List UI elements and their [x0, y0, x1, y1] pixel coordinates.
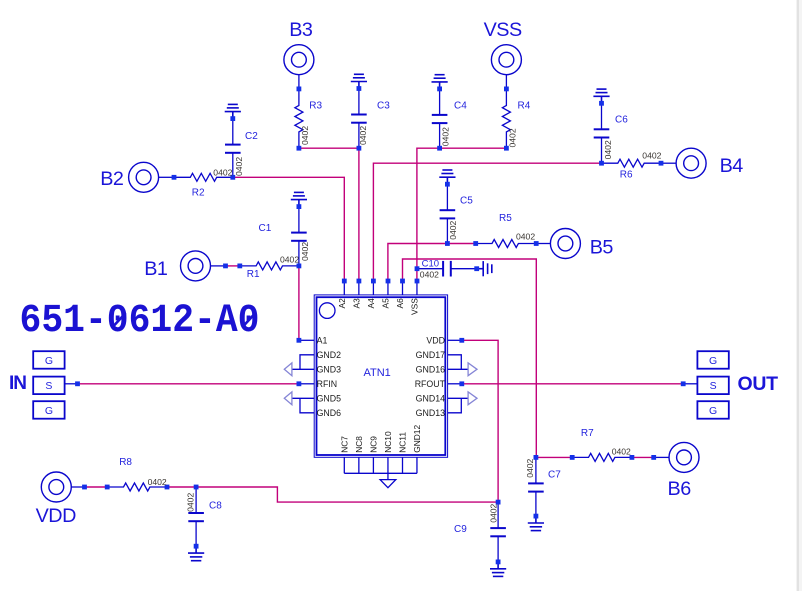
svg-text:VDD: VDD	[36, 505, 76, 527]
svg-text:G: G	[709, 405, 717, 417]
GND14 GND13 arrow	[468, 392, 477, 405]
svg-text:C3: C3	[377, 101, 390, 112]
junction C2 pin 1	[230, 116, 235, 121]
capacitor C2	[225, 119, 241, 178]
junction RFOUT pin	[459, 381, 464, 386]
capacitor C10	[417, 261, 477, 277]
junction C1 pin 1	[297, 204, 302, 209]
svg-text:R6: R6	[620, 169, 633, 180]
resistor R6	[602, 159, 662, 167]
svg-text:VSS: VSS	[410, 298, 420, 315]
svg-text:NC7: NC7	[339, 436, 349, 453]
ground (earth, up) at C6	[593, 89, 609, 103]
junction C3 pin 1	[357, 86, 362, 91]
svg-text:0402: 0402	[488, 503, 498, 522]
svg-text:R5: R5	[499, 213, 512, 224]
junction R8 pin 1	[105, 485, 110, 490]
svg-text:C10: C10	[422, 258, 439, 269]
ground (earth, up) at C3	[351, 74, 367, 88]
svg-text:OUT: OUT	[738, 373, 779, 395]
IN S stub	[65, 383, 78, 385]
svg-text:R3: R3	[309, 101, 322, 112]
pins GND2 GND3 bracket	[300, 355, 314, 370]
B6 stub	[654, 456, 670, 458]
OUT S pad	[697, 377, 728, 395]
svg-text:IN: IN	[9, 373, 26, 394]
junction C7 pin 1	[534, 455, 539, 460]
connector B5	[550, 229, 580, 259]
resistor R4	[502, 89, 510, 148]
junction B6 pin	[651, 455, 656, 460]
B1 stub	[210, 265, 225, 267]
svg-text:0402: 0402	[300, 242, 310, 261]
svg-text:GND17: GND17	[416, 350, 445, 360]
wire RFOUT to OUT	[462, 383, 683, 385]
junction C4 pin 2	[437, 146, 442, 151]
junction VSS pin	[415, 279, 420, 284]
svg-text:A6: A6	[395, 298, 405, 309]
junction R1 pin 1	[237, 264, 242, 269]
GND5 GND6 arrow	[284, 392, 292, 405]
capacitor C8	[188, 487, 204, 546]
svg-text:0402: 0402	[642, 151, 661, 161]
svg-text:0402: 0402	[234, 157, 244, 176]
svg-text:R4: R4	[518, 101, 531, 112]
VSS connector stub	[505, 74, 507, 89]
pin RFOUT stub	[448, 383, 462, 385]
junction R7 pin 2	[630, 455, 635, 460]
wire C7 to R7	[536, 456, 572, 458]
connector VDD connector	[41, 472, 71, 502]
svg-text:R2: R2	[192, 188, 205, 199]
svg-text:A4: A4	[366, 298, 376, 309]
ATN1 bottom ground stub	[387, 473, 389, 479]
svg-text:0402: 0402	[603, 140, 613, 159]
svg-text:0402: 0402	[441, 127, 451, 146]
wire C1 node to A1	[298, 266, 300, 340]
capacitor C5	[440, 184, 456, 243]
ground (earth, down) at C7	[528, 516, 544, 531]
svg-text:0402: 0402	[185, 493, 195, 512]
junction C4 pin 1	[437, 87, 442, 92]
svg-text:0402: 0402	[280, 255, 299, 265]
junction R4 pin 2	[504, 146, 509, 151]
svg-text:B6: B6	[668, 478, 692, 500]
junction OUT S pin	[681, 381, 686, 386]
pin A1 stub	[299, 339, 314, 341]
svg-text:NC9: NC9	[368, 436, 378, 453]
B4 stub	[661, 162, 677, 164]
junction B3 R3 node	[297, 87, 302, 92]
ground (earth, up) at C1	[291, 192, 307, 206]
resistor R8	[107, 483, 167, 491]
svg-text:B5: B5	[590, 237, 614, 259]
ground (earth, up) at C5	[439, 170, 455, 184]
ground (earth, up) at C4	[432, 75, 448, 89]
junction C9 pin 2	[496, 560, 501, 565]
svg-text:GND16: GND16	[416, 365, 445, 375]
OUT S stub	[683, 383, 697, 385]
svg-text:A5: A5	[381, 298, 391, 309]
wire VDD pin to C9 node	[462, 340, 498, 502]
svg-text:0402: 0402	[525, 458, 535, 477]
junction C8 pin 1	[194, 485, 199, 490]
svg-text:R1: R1	[247, 269, 260, 280]
svg-text:B4: B4	[720, 155, 744, 177]
svg-text:B3: B3	[289, 19, 313, 41]
OUT G pad bottom	[697, 401, 728, 419]
junction VDD conn pin	[82, 485, 87, 490]
junction A6 pin	[400, 279, 405, 284]
resistor R5	[476, 240, 537, 248]
wire VSS pin to C4 R4 net	[417, 148, 507, 281]
svg-text:ATN1: ATN1	[364, 367, 391, 379]
pin VDD stub	[448, 339, 462, 341]
svg-text:GND3: GND3	[317, 365, 342, 375]
svg-text:A1: A1	[317, 336, 328, 346]
svg-text:S: S	[710, 380, 717, 392]
svg-text:C5: C5	[460, 196, 473, 207]
ground (earth, up) at C2	[225, 104, 241, 118]
svg-text:RFIN: RFIN	[317, 379, 338, 389]
junction C8 pin 2	[194, 544, 199, 549]
svg-text:B2: B2	[100, 168, 123, 190]
wire B1 to R1	[226, 265, 240, 267]
resistor R2	[174, 173, 233, 181]
junction R1 C1 node	[297, 264, 302, 269]
svg-text:R8: R8	[119, 457, 132, 468]
resistor R3	[295, 89, 303, 148]
junction C5 pin 2	[445, 241, 450, 246]
junction A2 pin	[342, 279, 347, 284]
svg-text:S: S	[45, 380, 52, 392]
ATN1 bottom pins bus bar	[344, 472, 417, 474]
svg-text:0402: 0402	[508, 128, 518, 147]
svg-text:0402: 0402	[300, 126, 310, 145]
junction RFIN pin	[297, 381, 302, 386]
connector VSS connector	[491, 45, 521, 75]
junction A1 pin	[297, 338, 302, 343]
pins GND17 GND16 bracket	[448, 355, 462, 370]
svg-text:0402: 0402	[420, 270, 439, 280]
wire A4 to C6 R6 net	[373, 163, 601, 281]
svg-text:C8: C8	[209, 501, 222, 512]
svg-text:C9: C9	[454, 524, 467, 535]
svg-text:0402: 0402	[612, 446, 631, 456]
svg-text:0402: 0402	[358, 126, 368, 145]
svg-text:G: G	[709, 355, 717, 367]
slash of zero in 0612	[114, 313, 126, 326]
junction C3 A3 node	[357, 146, 362, 151]
svg-text:651-0612-A0: 651-0612-A0	[20, 299, 260, 344]
svg-text:0402: 0402	[213, 168, 232, 178]
wire R8 to C9 node	[167, 487, 498, 502]
IN G pad bottom	[33, 401, 64, 419]
svg-text:G: G	[45, 355, 53, 367]
junction R2 C2 node	[230, 175, 235, 180]
capacitor C4	[432, 89, 448, 148]
connector B3	[284, 45, 314, 75]
svg-text:GND13: GND13	[416, 408, 445, 418]
junction A5 pin	[386, 279, 391, 284]
connector B4	[676, 148, 706, 178]
wire A2 to R2 C2 net	[233, 177, 344, 281]
GND17 GND16 arrow	[468, 363, 477, 376]
capacitor C3	[351, 89, 367, 149]
capacitor C1	[291, 207, 307, 266]
junction C9 pin 1	[496, 500, 501, 505]
wire R3 to C3	[299, 147, 359, 149]
junction VSS R4 node	[504, 87, 509, 92]
svg-text:C4: C4	[454, 101, 467, 112]
wire C5 to R5	[447, 243, 475, 245]
svg-text:GND14: GND14	[416, 394, 445, 404]
wire C3 to A3	[358, 148, 360, 281]
junction C5 pin 1	[445, 182, 450, 187]
junction R3 pin 2	[297, 146, 302, 151]
junction R6 pin 2	[659, 161, 664, 166]
junction C10 pin 1	[415, 266, 420, 271]
wire R7 to B6	[632, 456, 654, 458]
ground (earth, right) at C10	[477, 261, 492, 276]
svg-text:0402: 0402	[516, 232, 535, 242]
svg-text:A3: A3	[352, 298, 362, 309]
ATN1 bottom pin stubs	[344, 457, 417, 473]
junction IN S pin	[75, 381, 80, 386]
svg-text:VSS: VSS	[484, 19, 522, 41]
junction R7 pin 1	[570, 455, 575, 460]
GND2 GND3 arrow	[284, 363, 292, 376]
resistor R1	[240, 262, 299, 270]
junction R5 pin 2	[534, 241, 539, 246]
junction C10 pin 2	[474, 266, 479, 271]
svg-text:0402: 0402	[148, 477, 167, 487]
connector B1	[181, 251, 211, 281]
pins GND5 GND6 bracket	[300, 398, 314, 413]
svg-text:GND12: GND12	[412, 425, 422, 453]
svg-text:C2: C2	[245, 131, 258, 142]
svg-text:0402: 0402	[448, 220, 458, 239]
svg-text:VDD: VDD	[426, 336, 445, 346]
svg-text:R7: R7	[581, 428, 594, 439]
junction C6 R6 node	[599, 161, 604, 166]
wire A5 to C5 net	[388, 244, 448, 282]
pin RFIN stub	[299, 383, 314, 385]
svg-text:NC8: NC8	[354, 436, 364, 453]
slash of zero in A0	[243, 313, 255, 326]
wire VDD to R8	[85, 486, 108, 488]
junction B2 R2 node	[172, 175, 177, 180]
wire A6 to C7 net	[403, 259, 537, 457]
ground (earth, down) at C8	[188, 546, 204, 561]
svg-text:NC10: NC10	[383, 431, 393, 453]
capacitor C7	[528, 457, 544, 516]
connector B2	[129, 162, 159, 192]
svg-text:GND6: GND6	[317, 408, 342, 418]
svg-text:A2: A2	[337, 298, 347, 309]
junction A4 pin	[371, 279, 376, 284]
VDD connector stub	[71, 486, 85, 488]
resistor R7	[572, 453, 632, 461]
scrollbar strip right edge	[797, 0, 800, 591]
svg-text:C6: C6	[615, 114, 628, 125]
svg-text:RFOUT: RFOUT	[415, 379, 446, 389]
junction C7 pin 2	[534, 514, 539, 519]
junction C6 pin 1	[599, 101, 604, 106]
capacitor C6	[594, 103, 610, 163]
svg-text:B1: B1	[144, 258, 168, 280]
svg-text:C7: C7	[548, 470, 561, 481]
svg-text:GND2: GND2	[317, 350, 342, 360]
junction A3 pin	[357, 279, 362, 284]
ATN1 top pin stubs	[344, 281, 417, 295]
junction VDD pin	[459, 338, 464, 343]
B2 stub	[158, 176, 174, 178]
junction R5 pin 1	[473, 241, 478, 246]
junction B1 pin	[223, 264, 228, 269]
OUT G pad top	[697, 351, 728, 369]
svg-text:C1: C1	[259, 223, 272, 234]
junction R8 pin 2	[165, 485, 170, 490]
svg-text:GND5: GND5	[317, 394, 342, 404]
ground arrow under ATN1	[380, 480, 396, 488]
IN G pad top	[33, 351, 64, 369]
IN S pad	[33, 377, 64, 395]
connector B6	[669, 442, 699, 472]
B3 stub	[298, 74, 300, 89]
op-amp U1 ATN1 body	[314, 295, 447, 457]
capacitor C9	[490, 502, 506, 562]
svg-text:NC11: NC11	[398, 432, 408, 453]
pins GND14 GND13 bracket	[448, 398, 462, 413]
B5 stub	[536, 243, 551, 245]
svg-text:G: G	[45, 405, 53, 417]
wire IN to RFIN	[78, 383, 299, 385]
ground (earth, down) at C9	[490, 562, 506, 577]
